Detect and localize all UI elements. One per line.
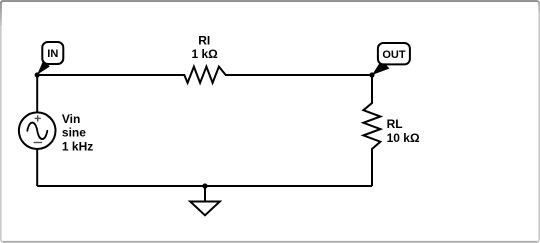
svg-text:1 kΩ: 1 kΩ <box>191 47 218 61</box>
svg-text:RL: RL <box>387 117 403 131</box>
svg-text:IN: IN <box>47 48 58 60</box>
svg-text:sine: sine <box>62 126 86 140</box>
svg-text:10 kΩ: 10 kΩ <box>387 131 420 145</box>
svg-text:RI: RI <box>198 34 210 48</box>
svg-text:OUT: OUT <box>382 49 406 61</box>
svg-text:1 kHz: 1 kHz <box>62 139 93 153</box>
svg-text:Vin: Vin <box>62 112 80 126</box>
